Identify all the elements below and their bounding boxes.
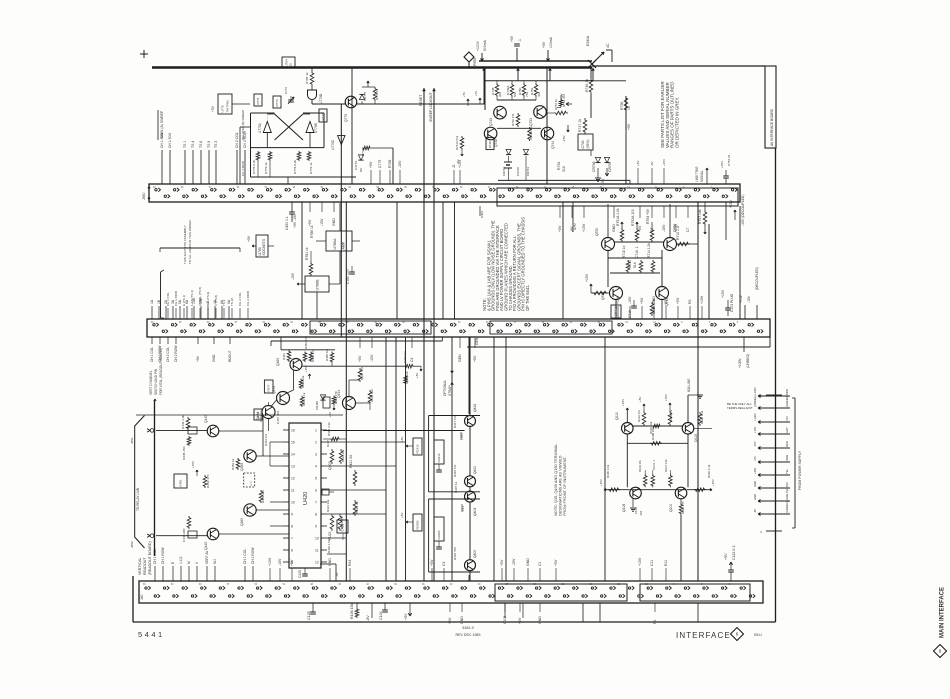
wires Q434: [348, 380, 350, 397]
svg-text:+15V: +15V: [721, 289, 725, 298]
svg-text:TS 10: TS 10: [230, 298, 234, 306]
svg-text:+5V: +5V: [510, 35, 514, 42]
svg-text:+100V: +100V: [476, 40, 480, 51]
svg-text:GRN-YEL: GRN-YEL: [785, 488, 789, 500]
svg-text:C450 0.1: C450 0.1: [285, 216, 289, 230]
wires Q470 Q474: [272, 400, 277, 406]
resistor R782A: [309, 262, 313, 276]
svg-text:Q100: Q100: [669, 504, 673, 512]
svg-text:OR DEPICTED IN GREY.: OR DEPICTED IN GREY.: [674, 97, 679, 148]
svg-text:4C: 4C: [606, 43, 610, 48]
U420 bottom wire to band3: [320, 563, 336, 565]
svg-text:Q474: Q474: [256, 412, 260, 420]
svg-text:TS 1: TS 1: [183, 141, 187, 148]
svg-text:(GREEN): (GREEN): [785, 396, 789, 407]
svg-text:OPTIONAL: OPTIONAL: [443, 380, 447, 396]
svg-text:10: 10: [315, 536, 319, 540]
amplifier U770C: [338, 136, 345, 145]
svg-text:R455 300: R455 300: [261, 490, 265, 503]
svg-text:-15V: -15V: [601, 178, 605, 186]
connector band 2: [147, 319, 770, 337]
svg-text:C7: C7: [686, 227, 690, 232]
svg-text:16: 16: [289, 63, 293, 67]
svg-text:R779 1k: R779 1k: [264, 162, 268, 174]
svg-text:CR480: CR480: [315, 401, 319, 410]
boxed label C450A: [254, 409, 262, 420]
svg-text:-15V: -15V: [461, 506, 465, 512]
svg-text:+5V: +5V: [404, 613, 408, 620]
svg-text:Q445: Q445: [204, 415, 208, 423]
resistor R756 right area: [624, 96, 628, 112]
svg-text:100mA: 100mA: [549, 37, 553, 48]
U420 right network R421A: [330, 514, 334, 531]
svg-text:TO RELAY LMB: TO RELAY LMB: [136, 488, 140, 511]
cluster crossbar upper: [484, 80, 593, 82]
svg-text:+5V: +5V: [724, 553, 728, 560]
J450 pin leads and labels: [161, 150, 163, 184]
svg-text:LINE TRIG: LINE TRIG: [695, 166, 699, 182]
long vertical wire node 302: [301, 202, 303, 319]
wire comparator cluster to band: [240, 126, 251, 128]
input terminal CH1: [147, 430, 150, 432]
svg-text:R445 150: R445 150: [182, 446, 186, 460]
svg-text:TS 4: TS 4: [191, 141, 195, 148]
svg-text:C1: C1: [538, 561, 542, 566]
svg-text:+15V: +15V: [621, 399, 625, 406]
wires Q480 cluster: [270, 341, 272, 346]
svg-text:R749A: R749A: [506, 85, 510, 95]
svg-text:+5V: +5V: [196, 355, 200, 362]
wire band1 to Q750: [607, 204, 609, 238]
svg-text:-15V: -15V: [753, 441, 757, 447]
svg-text:DELAYED (B) SWEEP: DELAYED (B) SWEEP: [241, 110, 245, 140]
svg-text:+30V: +30V: [753, 467, 757, 474]
IC U786B box: [305, 276, 329, 292]
wire Q770 collector to right: [357, 103, 485, 105]
diode CR770: [361, 101, 363, 104]
long vertical wire node 563: [562, 202, 564, 319]
svg-text:Q753: Q753: [529, 118, 533, 126]
svg-text:CR718: CR718: [614, 306, 618, 316]
stubs above band2 right: [617, 306, 619, 319]
long vertical wire node 346: [345, 202, 347, 581]
stubs above band1 right: [370, 170, 372, 184]
dashed box A-5: [244, 473, 255, 487]
svg-text:+15V: +15V: [664, 394, 668, 401]
wire Q450 to U420: [256, 455, 289, 457]
resistor R108B mid: [650, 442, 662, 446]
svg-text:CH 2 COL: CH 2 COL: [238, 292, 242, 306]
power ladder top bar: [766, 394, 782, 396]
cluster crossbar lower: [497, 99, 536, 101]
svg-text:THIS SLOT (TS) ASSEMBLY: THIS SLOT (TS) ASSEMBLY: [183, 225, 187, 264]
svg-text:R421 94k: R421 94k: [326, 499, 330, 512]
svg-text:R471 9.1k: R471 9.1k: [302, 392, 306, 406]
svg-text:C104 .1: C104 .1: [652, 460, 656, 470]
svg-text:R776 1k: R776 1k: [309, 162, 313, 174]
svg-text:(DECOUPLED): (DECOUPLED): [755, 267, 759, 290]
svg-text:P955: P955: [473, 58, 477, 66]
svg-text:RDOUT: RDOUT: [228, 350, 232, 362]
resistor R749 mid: [516, 113, 520, 127]
svg-text:Q400: Q400: [473, 550, 477, 558]
svg-text:+15V: +15V: [616, 295, 620, 304]
connector J450 inner band: [497, 188, 738, 206]
svg-text:7: 7: [315, 500, 317, 504]
svg-text:U420: U420: [303, 492, 309, 505]
resistor R486: [332, 396, 336, 405]
long vertical wire node 443: [442, 202, 444, 319]
component box on CH2 wire: [188, 531, 197, 538]
svg-text:MAIN (A) SWEEP: MAIN (A) SWEEP: [160, 110, 164, 138]
svg-text:J450: J450: [142, 193, 146, 200]
svg-text:+5V: +5V: [560, 93, 564, 100]
svg-text:R768: R768: [388, 160, 392, 168]
svg-text:R472 91k: R472 91k: [301, 375, 305, 388]
svg-text:R784 1k: R784 1k: [305, 72, 309, 84]
svg-text:R477: R477: [267, 384, 271, 391]
svg-text:C4: C4: [410, 357, 414, 362]
svg-text:R109 3.9k: R109 3.9k: [606, 464, 610, 478]
wire cluster top feeds: [484, 103, 486, 110]
svg-text:+6V: +6V: [474, 91, 478, 96]
power ladder pins: [758, 395, 790, 397]
capacitor C109 and ground: [632, 499, 634, 507]
svg-text:1,4,5 (TS 4): 1,4,5 (TS 4): [190, 290, 194, 306]
svg-text:AMP: AMP: [342, 241, 346, 249]
+5V stubs relay groups: [406, 445, 413, 447]
svg-text:.1: .1: [518, 39, 522, 42]
schematic left lower border: [132, 576, 134, 622]
svg-text:U770D: U770D: [319, 93, 323, 104]
long vertical wire SWEEP LOCKOUT: [433, 88, 435, 581]
boxed diode CR718: [615, 302, 617, 308]
svg-text:11: 11: [291, 488, 295, 492]
svg-text:CH 1 COL: CH 1 COL: [150, 347, 154, 362]
svg-text:CR747: CR747: [608, 161, 612, 172]
op-amp U770B: [306, 122, 314, 133]
transistor Q744: [541, 127, 554, 140]
svg-text:PU21: PU21: [328, 531, 332, 540]
svg-text:Q460: Q460: [240, 518, 244, 526]
transistor Q110: [622, 423, 634, 435]
schematic top border: [592, 65, 765, 67]
svg-text:R751A 1.2k: R751A 1.2k: [616, 208, 620, 226]
wires U420 right connections: [327, 441, 406, 443]
svg-text:R416 91k: R416 91k: [341, 449, 345, 462]
resistor R745A left: [460, 136, 464, 150]
svg-text:VERT CHANNEL: VERT CHANNEL: [149, 370, 153, 395]
svg-text:A6 INTERFACE BOARD: A6 INTERFACE BOARD: [770, 108, 774, 146]
svg-text:R417 1%: R417 1%: [453, 415, 457, 428]
svg-text:R417: R417: [326, 440, 330, 447]
svg-text:+5V: +5V: [211, 105, 215, 112]
svg-text:A-5: A-5: [249, 481, 253, 486]
resistor R484: [303, 352, 307, 363]
boxed label R748B: [486, 138, 494, 150]
svg-text:+15V: +15V: [460, 433, 464, 440]
svg-text:R481: R481: [282, 353, 286, 360]
svg-text:-8V: -8V: [335, 572, 339, 577]
svg-text:GND: GND: [612, 224, 616, 232]
IC U770 label box: [218, 94, 232, 114]
svg-text:+5V: +5V: [369, 161, 373, 168]
svg-text:CH 1 ROW: CH 1 ROW: [174, 291, 178, 306]
quad lower resistors: [643, 474, 647, 487]
band 3 inner band right: [640, 584, 750, 601]
transistor Q450: [244, 450, 256, 462]
resistor R747: [583, 118, 587, 134]
svg-text:Q404: Q404: [473, 508, 477, 516]
svg-text:R756: R756: [620, 102, 624, 110]
svg-text:R751: R751: [530, 87, 534, 95]
svg-text:+5V: +5V: [518, 617, 522, 624]
transistor Q753: [534, 106, 547, 119]
svg-text:REV DEC 1983: REV DEC 1983: [456, 633, 481, 637]
svg-text:R11B 1%: R11B 1%: [669, 410, 673, 422]
svg-text:R484 1%: R484 1%: [304, 337, 308, 349]
input shield line: [154, 400, 156, 556]
wire node 726 between bands: [725, 202, 727, 240]
wire group box lower: [429, 498, 480, 500]
svg-text:D5.U: D5.U: [754, 633, 762, 637]
capacitor C448: [187, 516, 191, 529]
stub +15V left of Q718: [590, 284, 592, 290]
+5V stub left of Q740: [479, 98, 481, 104]
svg-text:MAIN INTERFACE: MAIN INTERFACE: [940, 587, 946, 638]
svg-text:+5V: +5V: [400, 437, 404, 442]
svg-text:N/J: N/J: [213, 559, 217, 564]
svg-text:TS 3: TS 3: [214, 141, 218, 148]
transistor Q100: [675, 487, 687, 499]
svg-text:5162-9: 5162-9: [462, 626, 473, 630]
boxed label CR416: [434, 440, 444, 464]
svg-text:C113 0.1: C113 0.1: [732, 546, 736, 560]
svg-text:R2: R2: [688, 299, 692, 304]
svg-text:VERT AL: VERT AL: [205, 550, 209, 564]
long vertical wire node 454: [454, 202, 456, 319]
resistor R754 row: [559, 99, 563, 107]
wire Q460 to U420: [256, 509, 289, 511]
AND gate U770D: [308, 90, 317, 100]
svg-text:GEN: GEN: [458, 354, 462, 362]
boxed label R773: [273, 96, 281, 108]
transistor Q400: [465, 560, 476, 571]
U420 right network R418: [330, 437, 340, 441]
svg-text:R714 1.2k: R714 1.2k: [647, 243, 651, 258]
long vertical wire node 506: [505, 337, 507, 581]
band 2 pin labels below: [151, 337, 153, 344]
svg-text:+15V: +15V: [191, 461, 195, 468]
svg-text:R437 470: R437 470: [360, 367, 364, 380]
svg-text:C11: C11: [650, 560, 654, 566]
resistor R481: [287, 350, 291, 362]
svg-text:CR416: CR416: [437, 453, 441, 462]
connector band 3: [139, 581, 763, 603]
wire Q110 collector up: [626, 408, 628, 423]
rail feed arrow 100mA: [547, 50, 549, 61]
long vertical wire node 397: [396, 202, 398, 319]
transistor Q108: [630, 487, 642, 499]
resistor R718A: [592, 291, 608, 295]
long vertical wire node 494: [493, 337, 495, 581]
svg-text:+5V: +5V: [542, 41, 546, 48]
svg-text:U770: U770: [221, 105, 225, 113]
svg-text:Q750: Q750: [595, 228, 599, 236]
svg-text:GND: GND: [538, 616, 542, 624]
resistor R775: [297, 151, 301, 161]
svg-text:GND: GND: [526, 558, 530, 566]
svg-text:+130V: +130V: [753, 413, 757, 421]
svg-text:READOUT: READOUT: [143, 557, 147, 575]
side diamond: [934, 645, 947, 658]
capacitor C716: [631, 305, 637, 307]
resistor R751: [535, 81, 537, 83]
svg-text:R407 1k: R407 1k: [454, 481, 458, 493]
resistor R490: [404, 364, 414, 368]
resistor R778: [256, 151, 260, 161]
schematic bottom border: [133, 621, 776, 623]
svg-text:J451: J451: [130, 437, 134, 444]
svg-text:+5V: +5V: [473, 355, 477, 362]
wire Q440 to U420: [219, 533, 289, 535]
svg-text:14: 14: [291, 452, 295, 456]
svg-text:RED: RED: [785, 441, 789, 447]
svg-text:C4: C4: [442, 561, 446, 566]
svg-text:+100V: +100V: [738, 358, 742, 368]
svg-text:R748: R748: [488, 141, 492, 148]
resistor R784: [311, 68, 313, 72]
wire band2 strap feed: [441, 337, 443, 341]
svg-text:500: 500: [513, 92, 517, 97]
boxed label RC416: [413, 438, 422, 455]
svg-text:Q434: Q434: [337, 390, 341, 398]
svg-text:+5V: +5V: [627, 123, 631, 130]
svg-text:R749 271: R749 271: [511, 113, 515, 126]
long vertical wire node 605: [604, 337, 606, 581]
svg-text:+5V: +5V: [448, 617, 452, 624]
svg-text:8: 8: [291, 524, 293, 528]
svg-text:4: 4: [315, 464, 317, 468]
svg-text:+5V: +5V: [430, 559, 434, 566]
svg-text:1: 1: [315, 428, 317, 432]
svg-text:VIO: VIO: [785, 416, 789, 421]
resistor R712: [676, 243, 690, 245]
svg-text:TM TRIG: TM TRIG: [225, 100, 229, 113]
svg-text:10: 10: [291, 500, 295, 504]
svg-text:R485 1%: R485 1%: [311, 350, 315, 362]
diode CR740: [506, 149, 511, 154]
svg-text:(55%): (55%): [586, 139, 590, 148]
transistor Q440: [207, 528, 219, 540]
svg-text:R770 1k: R770 1k: [375, 88, 379, 100]
svg-text:R434 1%: R434 1%: [264, 434, 268, 446]
resistors lower row: [626, 260, 630, 273]
svg-text:-15V: -15V: [747, 295, 751, 303]
svg-text:C2: C2: [664, 299, 668, 304]
svg-text:9: 9: [291, 512, 293, 516]
svg-text:U770A: U770A: [258, 122, 262, 133]
connector P955: [464, 52, 474, 62]
svg-text:R757 14k: R757 14k: [698, 209, 702, 224]
band 3 below components: [312, 603, 314, 612]
svg-text:GND: GND: [753, 481, 757, 487]
stubs below band1 right: [559, 206, 561, 218]
svg-text:SIGNAL: SIGNAL: [700, 170, 704, 182]
svg-text:+5V: +5V: [558, 225, 562, 232]
svg-text:R434 91k: R434 91k: [370, 389, 374, 402]
svg-text:310: 310: [562, 166, 566, 172]
svg-text:R421 34: R421 34: [349, 455, 353, 468]
svg-text:+5V: +5V: [247, 235, 251, 242]
svg-text:+15V: +15V: [753, 426, 757, 433]
svg-text:+5V: +5V: [638, 225, 642, 232]
svg-text:9: 9: [315, 524, 317, 528]
resistor R106 below Q100: [680, 499, 682, 503]
svg-text:+5V: +5V: [500, 559, 504, 566]
strap arrows: [451, 371, 452, 373]
boxed label C426: [337, 520, 348, 533]
svg-text:R10A 1%: R10A 1%: [638, 460, 642, 472]
boxed label RC406: [413, 514, 422, 531]
svg-text:BLK: BLK: [785, 482, 789, 487]
svg-text:C103 PLUG: C103 PLUG: [730, 293, 734, 312]
svg-text:C779: C779: [378, 160, 382, 168]
capacitor C103 right: [727, 300, 729, 308]
register mark: [140, 53, 148, 55]
svg-text:-15V: -15V: [291, 272, 295, 280]
svg-text:12: 12: [291, 476, 295, 480]
rail junction X E340: [588, 60, 596, 68]
svg-text:R424 1k: R424 1k: [355, 501, 359, 514]
svg-text:CH 2 ROW: CH 2 ROW: [174, 345, 178, 362]
svg-text:Q744: Q744: [551, 141, 555, 149]
svg-text:C106: C106: [503, 616, 507, 624]
svg-text:-8V: -8V: [650, 161, 654, 166]
wire gate output to Q770: [312, 103, 346, 105]
svg-text:13: 13: [291, 464, 295, 468]
svg-text:+5V: +5V: [308, 219, 312, 226]
wire rail spur right: [593, 80, 626, 82]
svg-text:R744A 11k: R744A 11k: [529, 126, 533, 140]
svg-text:+5V: +5V: [400, 513, 404, 518]
svg-text:+5V: +5V: [358, 355, 362, 362]
svg-text:CH 1 COL: CH 1 COL: [153, 549, 157, 564]
svg-text:R1: R1: [653, 619, 657, 624]
transistor Q410: [465, 476, 476, 487]
svg-text:R446 1.5k: R446 1.5k: [181, 414, 185, 429]
svg-text:-8V: -8V: [753, 509, 757, 513]
svg-text:R10B 10k: R10B 10k: [651, 427, 655, 440]
svg-text:+15V: +15V: [674, 223, 678, 232]
svg-text:+15V: +15V: [700, 295, 704, 304]
U420 left pins: [283, 429, 289, 431]
cluster wiring: [614, 241, 664, 243]
svg-text:+15V: +15V: [585, 273, 589, 282]
upper +100V rail: [479, 60, 592, 62]
band 3 top labels left: [154, 566, 156, 581]
input bracket: [135, 416, 145, 549]
U420 right pins: [321, 429, 327, 431]
svg-text:U786B: U786B: [315, 279, 319, 291]
svg-text:6: 6: [315, 488, 317, 492]
svg-text:K406: K406: [480, 211, 484, 218]
svg-text:6: 6: [291, 548, 293, 552]
svg-text:CH 1 COL: CH 1 COL: [243, 549, 247, 564]
IC U420: [289, 423, 321, 568]
svg-text:V (TS 8): V (TS 8): [214, 295, 218, 306]
svg-text:R496 220: R496 220: [405, 371, 409, 384]
